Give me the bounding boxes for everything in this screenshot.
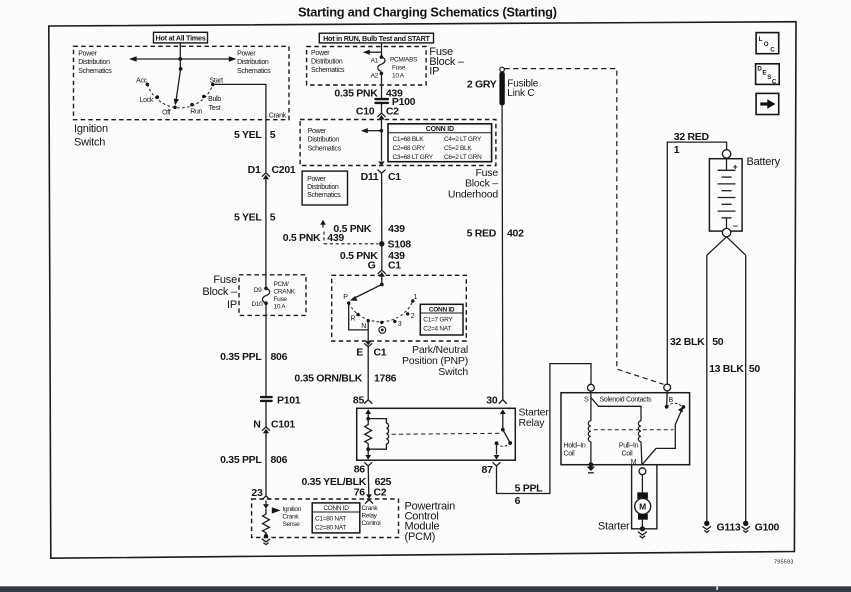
contact Bulb Test: [202, 95, 206, 99]
Hot in RUN Bulb Test and START feed box: [319, 33, 433, 43]
svg-text:Link C: Link C: [507, 88, 534, 99]
svg-text:5 RED: 5 RED: [467, 228, 497, 240]
svg-text:Lock: Lock: [140, 97, 154, 104]
label Pull-In Coil: [619, 443, 639, 458]
svg-text:CONN ID: CONN ID: [426, 126, 454, 133]
wire label 0.35 PPL 806 (upper): [220, 351, 287, 363]
svg-text:CONN ID: CONN ID: [323, 505, 349, 512]
label: Power Distribution Schematics: [308, 128, 342, 152]
svg-text:C2: C2: [386, 105, 399, 117]
svg-text:Hold–In: Hold–In: [564, 443, 586, 450]
svg-text:C2=4 NAT: C2=4 NAT: [423, 325, 451, 332]
node: junction of feed and arrow line: [178, 57, 182, 61]
svg-text:Schematics: Schematics: [307, 192, 341, 199]
splice S108: [379, 239, 411, 251]
svg-text:806: 806: [271, 454, 288, 466]
dashed branch wire 0.5 PNK 439 to power distribution: [324, 232, 379, 244]
svg-text:Test: Test: [209, 105, 221, 112]
svg-text:IP: IP: [227, 299, 237, 311]
starter motor brush (top): [637, 492, 648, 498]
svg-text:Distribution: Distribution: [311, 59, 343, 66]
wire from N contact out of PNP switch: [367, 321, 369, 341]
svg-text:32 BLK: 32 BLK: [670, 336, 705, 348]
wire from hot box to fuse: [381, 43, 383, 57]
label PCM/ABS Fuse 10 A: [390, 57, 418, 80]
svg-text:PCM/ABS: PCM/ABS: [390, 57, 418, 64]
contact 1: [411, 299, 414, 302]
label Hold-In Coil: [564, 443, 586, 458]
svg-text:5 YEL: 5 YEL: [234, 212, 262, 224]
ground (starter): [638, 532, 647, 538]
svg-text:Distribution: Distribution: [78, 59, 110, 66]
svg-text:Fuse: Fuse: [392, 65, 406, 72]
svg-text:E: E: [356, 347, 363, 359]
svg-text:Switch: Switch: [438, 366, 468, 378]
wire label 5 YEL 5 (upper): [234, 129, 276, 141]
battery positive terminal: [722, 150, 730, 158]
terminal 30: [486, 394, 506, 429]
contact R: [356, 313, 359, 316]
svg-text:S108: S108: [388, 239, 412, 251]
wire 0.35 PNK 439 from fuse to P100: [381, 73, 383, 98]
svg-text:Fuse: Fuse: [274, 296, 288, 303]
svg-text:Relay: Relay: [362, 512, 378, 519]
contact Acc: [146, 83, 150, 87]
wire M to motor: [641, 475, 643, 493]
terminal 76 C2 at PCM: [354, 486, 387, 503]
wire label 0.35 PPL 806 (lower): [220, 454, 287, 466]
terminal D10: [264, 301, 268, 305]
terminal 23 at PCM: [251, 487, 270, 500]
svg-text:Pull–In: Pull–In: [619, 443, 639, 450]
connector N C101: [253, 418, 295, 436]
starter motor M: [635, 498, 651, 514]
svg-text:P101: P101: [277, 394, 301, 406]
wire to C101: [265, 402, 267, 427]
svg-text:50: 50: [712, 336, 724, 348]
svg-text:Off: Off: [162, 110, 171, 117]
node: hold-in coil ground junction: [589, 462, 594, 467]
fuse block IP dashed box (PCM/ABS fuse): [307, 47, 427, 86]
svg-text:–: –: [733, 220, 738, 230]
wire label 0.35 ORN/BLK 1786: [294, 372, 396, 384]
CONN ID table (underhood fuse block): [388, 124, 492, 162]
svg-text:Power: Power: [308, 128, 327, 135]
wire 0.35 PPL 806 to PCM: [265, 435, 267, 497]
contact N: [367, 319, 370, 322]
svg-text:C5=2 BLK: C5=2 BLK: [444, 145, 472, 152]
svg-text:O: O: [764, 41, 769, 48]
terminal D9: [264, 287, 268, 291]
PNP wiper arrow pointing at P: [350, 285, 382, 301]
svg-text:1786: 1786: [374, 372, 397, 384]
contact 2: [406, 312, 409, 315]
wire 5 YEL to fuse block: [265, 181, 267, 289]
svg-text:1: 1: [674, 144, 680, 156]
wire motor to ground: [641, 520, 643, 529]
starter relay box: [357, 408, 516, 460]
svg-text:795593: 795593: [774, 560, 794, 566]
powertrain control module PCM dashed box: [252, 499, 399, 538]
ground (hold-in coil): [587, 467, 595, 473]
svg-text:5 PPL: 5 PPL: [515, 483, 544, 495]
wire from P contact to output: [349, 303, 369, 330]
svg-text:Control: Control: [362, 520, 382, 527]
svg-text:(PCM): (PCM): [405, 531, 436, 543]
svg-text:S: S: [767, 74, 771, 81]
svg-text:Coil: Coil: [564, 451, 576, 458]
svg-text:C1: C1: [388, 259, 401, 271]
output contact (circled): [379, 327, 386, 334]
svg-text:Crank: Crank: [283, 513, 300, 520]
label Fuse Block - IP: [202, 274, 238, 311]
wire label 5 RED 402: [467, 228, 525, 240]
relay mechanical dashed link: [392, 433, 500, 434]
svg-text:A2: A2: [371, 73, 379, 80]
svg-text:0.35 ORN/BLK: 0.35 ORN/BLK: [294, 372, 362, 384]
label: Power Distribution Schematics (left): [78, 50, 112, 75]
arrow to power distribution schematics: [361, 128, 382, 133]
svg-text:30: 30: [486, 394, 498, 406]
svg-text:Battery: Battery: [747, 156, 781, 168]
fuse block IP dashed box (PCM/CRANK fuse): [239, 275, 306, 316]
forward arrow reference box: [756, 93, 779, 114]
ground G113: [703, 521, 741, 534]
node: blade end: [508, 441, 512, 445]
dashed throw arc (solenoid contact): [667, 403, 682, 407]
battery negative Y split: [707, 237, 746, 255]
svg-text:E: E: [762, 70, 766, 77]
arrow up into power distribution schematics box: [320, 220, 326, 228]
terminal A1: [380, 55, 384, 59]
label Ignition Crank Sense: [283, 506, 302, 528]
svg-text:Block –: Block –: [202, 286, 238, 298]
solenoid terminal S: [588, 384, 595, 391]
svg-text:D11: D11: [361, 171, 379, 183]
contact Start: [211, 83, 215, 87]
wire 0.5 PNK 439 from D11 to S108: [381, 173, 383, 244]
svg-text:5: 5: [270, 129, 276, 141]
svg-text:A1: A1: [371, 57, 379, 64]
connector D11 C1: [361, 162, 402, 183]
DESC reference box: [756, 64, 780, 86]
label Powertrain Control Module (PCM): [405, 500, 456, 543]
svg-text:402: 402: [507, 228, 524, 240]
svg-text:Starting and Charging Schemati: Starting and Charging Schematics (Starti…: [298, 5, 557, 20]
wire label 5 YEL 5 (lower): [234, 212, 276, 224]
dashed rotary arc of PNP switch: [349, 301, 413, 322]
starter motor brush (bottom): [638, 514, 648, 520]
wire from S to pull-in coil: [591, 398, 641, 421]
svg-text:1: 1: [414, 294, 418, 301]
node: solenoid blade tip: [682, 405, 686, 409]
dashed rotary arc of ignition switch: [147, 84, 212, 108]
svg-text:C: C: [772, 78, 777, 85]
wire label 32 RED 1: [674, 131, 710, 156]
wire 0.35 YEL/BLK 625 to PCM: [367, 466, 370, 495]
LOC reference box: [756, 33, 779, 54]
svg-text:2: 2: [411, 313, 415, 320]
relay contact blade: [503, 430, 510, 443]
wire label 32 BLK 50: [670, 336, 724, 348]
node: relay coil top junction: [366, 417, 370, 421]
connector C10 C2: [356, 105, 399, 123]
svg-text:0.35 PPL: 0.35 PPL: [220, 454, 262, 466]
svg-text:Acc: Acc: [136, 77, 148, 84]
wire 32 RED 1 from battery positive to solenoid B: [667, 142, 726, 384]
starter solenoid box: [561, 393, 690, 465]
label Fuse Block - IP (top): [429, 46, 465, 78]
svg-text:IP: IP: [429, 66, 439, 78]
svg-text:Hot at All Times: Hot at All Times: [156, 34, 206, 43]
dashed throw arc: [497, 443, 511, 446]
solenoid terminal M: [639, 468, 646, 475]
wire label 13 BLK 50: [709, 363, 760, 375]
svg-text:G: G: [368, 259, 376, 271]
label Fusible Link C: [507, 78, 538, 98]
contact Run: [190, 103, 194, 107]
solenoid terminal B: [664, 384, 671, 391]
contact center: [380, 321, 383, 324]
svg-text:C1: C1: [388, 171, 401, 183]
svg-text:Starter: Starter: [598, 520, 630, 532]
terminal 85: [353, 395, 372, 419]
arrow to power distribution schematics: [363, 50, 382, 55]
wire from Start contact to Crank feed: [213, 84, 266, 172]
svg-text:Ignition: Ignition: [283, 506, 302, 513]
double-headed arrow to power distribution schematics: [129, 56, 236, 62]
svg-text:PCM/: PCM/: [274, 281, 290, 288]
pull-in coil: [638, 421, 641, 442]
contact 3: [393, 320, 396, 323]
svg-text:L: L: [759, 36, 763, 43]
svg-text:D1: D1: [248, 164, 261, 176]
park/neutral position switch dashed box: [332, 275, 467, 341]
svg-text:CRANK: CRANK: [274, 288, 296, 295]
svg-text:R: R: [350, 316, 355, 323]
svg-text:85: 85: [353, 395, 365, 407]
svg-text:Switch: Switch: [74, 136, 105, 148]
solenoid mechanical dashed link: [594, 429, 674, 431]
label Fuse Block - Underhood: [448, 167, 499, 200]
svg-text:C101: C101: [271, 418, 295, 430]
node: PNP wiper pivot: [380, 283, 384, 287]
ignition switch wiper arrow pointing at Off: [174, 69, 181, 105]
svg-text:439: 439: [327, 232, 344, 244]
label: Power Distribution Schematics (right): [237, 50, 271, 75]
svg-text:Sense: Sense: [283, 521, 301, 528]
connector G C1: [368, 259, 402, 280]
wire hold-in coil to ground: [590, 442, 592, 465]
node: B contact: [665, 405, 669, 409]
node: wiper pivot: [179, 67, 183, 71]
svg-text:5 YEL: 5 YEL: [234, 129, 262, 141]
svg-text:C1=80 NAT: C1=80 NAT: [315, 515, 346, 522]
svg-text:5: 5: [270, 212, 276, 224]
wire from blade to M terminal: [642, 425, 675, 465]
connector E C1: [356, 341, 387, 359]
svg-text:86: 86: [354, 464, 366, 476]
svg-text:625: 625: [375, 476, 392, 488]
PCM CONN ID table: [312, 503, 360, 533]
wire label 0.35 YEL/BLK 625: [302, 476, 392, 488]
terminal 86: [354, 449, 372, 475]
grommet P100: [374, 96, 415, 108]
wire into PNP wiper: [381, 278, 383, 285]
wire through underhood fuse block: [381, 122, 383, 161]
svg-text:D10: D10: [251, 301, 263, 308]
svg-text:Power: Power: [237, 50, 256, 57]
fuse PCM/ABS 10A symbol: [378, 57, 385, 71]
PNP CONN ID table: [420, 304, 463, 335]
svg-text:Schematics: Schematics: [308, 145, 342, 152]
wire label 0.35 PNK 439: [334, 87, 403, 99]
signal direction arrow (ignition crank sense): [272, 507, 281, 513]
svg-text:13 BLK: 13 BLK: [709, 363, 744, 375]
ground G100: [742, 521, 780, 534]
svg-text:Distribution: Distribution: [307, 184, 339, 191]
svg-text:Fuse: Fuse: [213, 274, 237, 286]
svg-text:Hot in RUN, Bulb Test and STAR: Hot in RUN, Bulb Test and START: [323, 34, 430, 43]
svg-text:C1=68 BLK: C1=68 BLK: [393, 136, 425, 143]
border frame of drawing: [49, 22, 796, 559]
wire from S to hold-in coil: [590, 391, 592, 421]
Hot at All Times feed box: [154, 32, 208, 43]
label Ignition Switch: [74, 123, 108, 148]
svg-text:87: 87: [482, 464, 494, 476]
svg-text:C6=2 LT GRN: C6=2 LT GRN: [444, 154, 482, 161]
svg-text:Ignition: Ignition: [74, 123, 108, 135]
resistor ignition crank sense: [263, 509, 270, 536]
svg-text:Relay: Relay: [519, 417, 546, 429]
svg-text:0.5 PNK: 0.5 PNK: [283, 232, 321, 244]
svg-text:N: N: [361, 323, 366, 330]
wire from B into contact: [666, 391, 669, 407]
svg-text:Power: Power: [311, 50, 330, 57]
svg-text:Distribution: Distribution: [237, 59, 269, 66]
grommet P101: [260, 394, 301, 406]
svg-text:B: B: [669, 397, 674, 404]
svg-text:P: P: [343, 294, 348, 301]
node: PCM internal ground junction: [264, 534, 268, 538]
svg-text:C1: C1: [374, 347, 387, 359]
fuse block underhood dashed box: [300, 120, 496, 166]
svg-text:0.35 PNK: 0.35 PNK: [334, 87, 378, 99]
wire from Hot at All Times into switch: [179, 43, 181, 69]
wire to C10: [381, 104, 383, 114]
relay resistor: [365, 419, 372, 450]
battery negative terminal: [722, 228, 730, 236]
contact Off: [173, 106, 177, 110]
dashed feed wire from battery side to fusible link: [504, 69, 663, 385]
svg-text:C201: C201: [272, 164, 296, 176]
svg-text:C1=7 GRY: C1=7 GRY: [423, 316, 453, 323]
svg-text:C4=2 LT GRY: C4=2 LT GRY: [444, 136, 482, 143]
wire 5 RED 402 from fusible link to relay 30: [501, 105, 504, 399]
wire 0.5 PNK 439 from S108 to PNP switch: [381, 244, 383, 271]
wire 32 BLK 50 to ground G113: [706, 255, 708, 521]
svg-text:23: 23: [251, 487, 263, 499]
ignition switch dashed box: [74, 46, 290, 119]
svg-text:0.35 PPL: 0.35 PPL: [220, 351, 262, 363]
solid box: Power Distribution Schematics: [302, 171, 347, 205]
svg-text:6: 6: [515, 495, 521, 507]
svg-text:M: M: [639, 502, 646, 512]
svg-text:Bulb: Bulb: [208, 96, 221, 103]
node: relay contact pivot: [501, 428, 505, 432]
svg-text:439: 439: [388, 223, 405, 235]
svg-text:3: 3: [398, 321, 402, 328]
svg-text:D9: D9: [254, 287, 262, 294]
starter enclosure: [632, 465, 657, 529]
svg-text:10 A: 10 A: [392, 73, 405, 80]
PCM entry arrow for circuit 806: [263, 501, 269, 509]
label PCM/CRANK Fuse 10 A: [274, 281, 296, 311]
svg-text:Schematics: Schematics: [311, 67, 345, 74]
wire label 0.5 PNK 439 (dashed branch): [283, 232, 345, 244]
svg-text:Schematics: Schematics: [237, 68, 271, 75]
label Park/Neutral Position (PNP) Switch: [402, 344, 468, 378]
svg-text:C2=68 GRY: C2=68 GRY: [393, 145, 426, 152]
wire label 0.5 PNK 439 (above S108): [333, 223, 405, 235]
contact P: [347, 301, 350, 304]
wire pull-in coil to M: [640, 442, 643, 465]
svg-text:Coil: Coil: [622, 451, 634, 458]
svg-text:Power: Power: [307, 176, 326, 183]
svg-text:S: S: [584, 396, 589, 403]
svg-text:Crank: Crank: [269, 112, 287, 119]
fuse PCM/CRANK 10A symbol: [262, 288, 269, 303]
terminal A2: [380, 72, 384, 76]
label Bulb Test: [208, 96, 221, 112]
contact Lock: [156, 95, 160, 99]
svg-text:806: 806: [271, 351, 288, 363]
label: Power Distribution Schematics: [311, 50, 345, 74]
wire 13 BLK 50 to ground G100: [745, 255, 747, 521]
wire 5 PPL 6 from relay 87 to solenoid S: [497, 364, 592, 494]
label Starter Relay: [519, 407, 550, 430]
node: relay coil bottom junction: [366, 447, 370, 451]
node: contact 87 inner: [495, 441, 499, 445]
svg-text:N: N: [253, 418, 260, 430]
svg-text:Start: Start: [210, 77, 224, 84]
svg-text:Run: Run: [190, 108, 202, 115]
ground (PCM internal): [262, 539, 270, 545]
terminal 87: [482, 443, 501, 476]
connector D1 C201: [248, 164, 296, 182]
svg-text:C: C: [770, 46, 775, 53]
node: junction on feed wire: [380, 129, 384, 133]
svg-text:0.35 YEL/BLK: 0.35 YEL/BLK: [302, 476, 367, 488]
label Crank Relay Control: [362, 505, 382, 527]
svg-text:C10: C10: [356, 105, 375, 117]
battery: [709, 159, 742, 231]
svg-text:Power: Power: [78, 50, 97, 57]
svg-text:Schematics: Schematics: [78, 68, 112, 75]
svg-text:Crank: Crank: [362, 505, 379, 512]
wire label 0.5 PNK 439 (below S108): [340, 250, 405, 262]
svg-text:32 RED: 32 RED: [674, 131, 710, 143]
hold-in coil: [588, 421, 591, 442]
svg-text:G100: G100: [755, 521, 780, 533]
wire 0.35 PPL 806 from fuse to P101: [265, 303, 267, 396]
svg-text:C3=68 LT GRY: C3=68 LT GRY: [393, 154, 434, 161]
solenoid contact blade with arrow: [675, 407, 683, 425]
relay coil: [368, 419, 388, 450]
svg-text:Distribution: Distribution: [308, 137, 340, 144]
svg-text:Solenoid Contacts: Solenoid Contacts: [600, 396, 653, 403]
svg-text:C2=80 NAT: C2=80 NAT: [315, 524, 346, 531]
